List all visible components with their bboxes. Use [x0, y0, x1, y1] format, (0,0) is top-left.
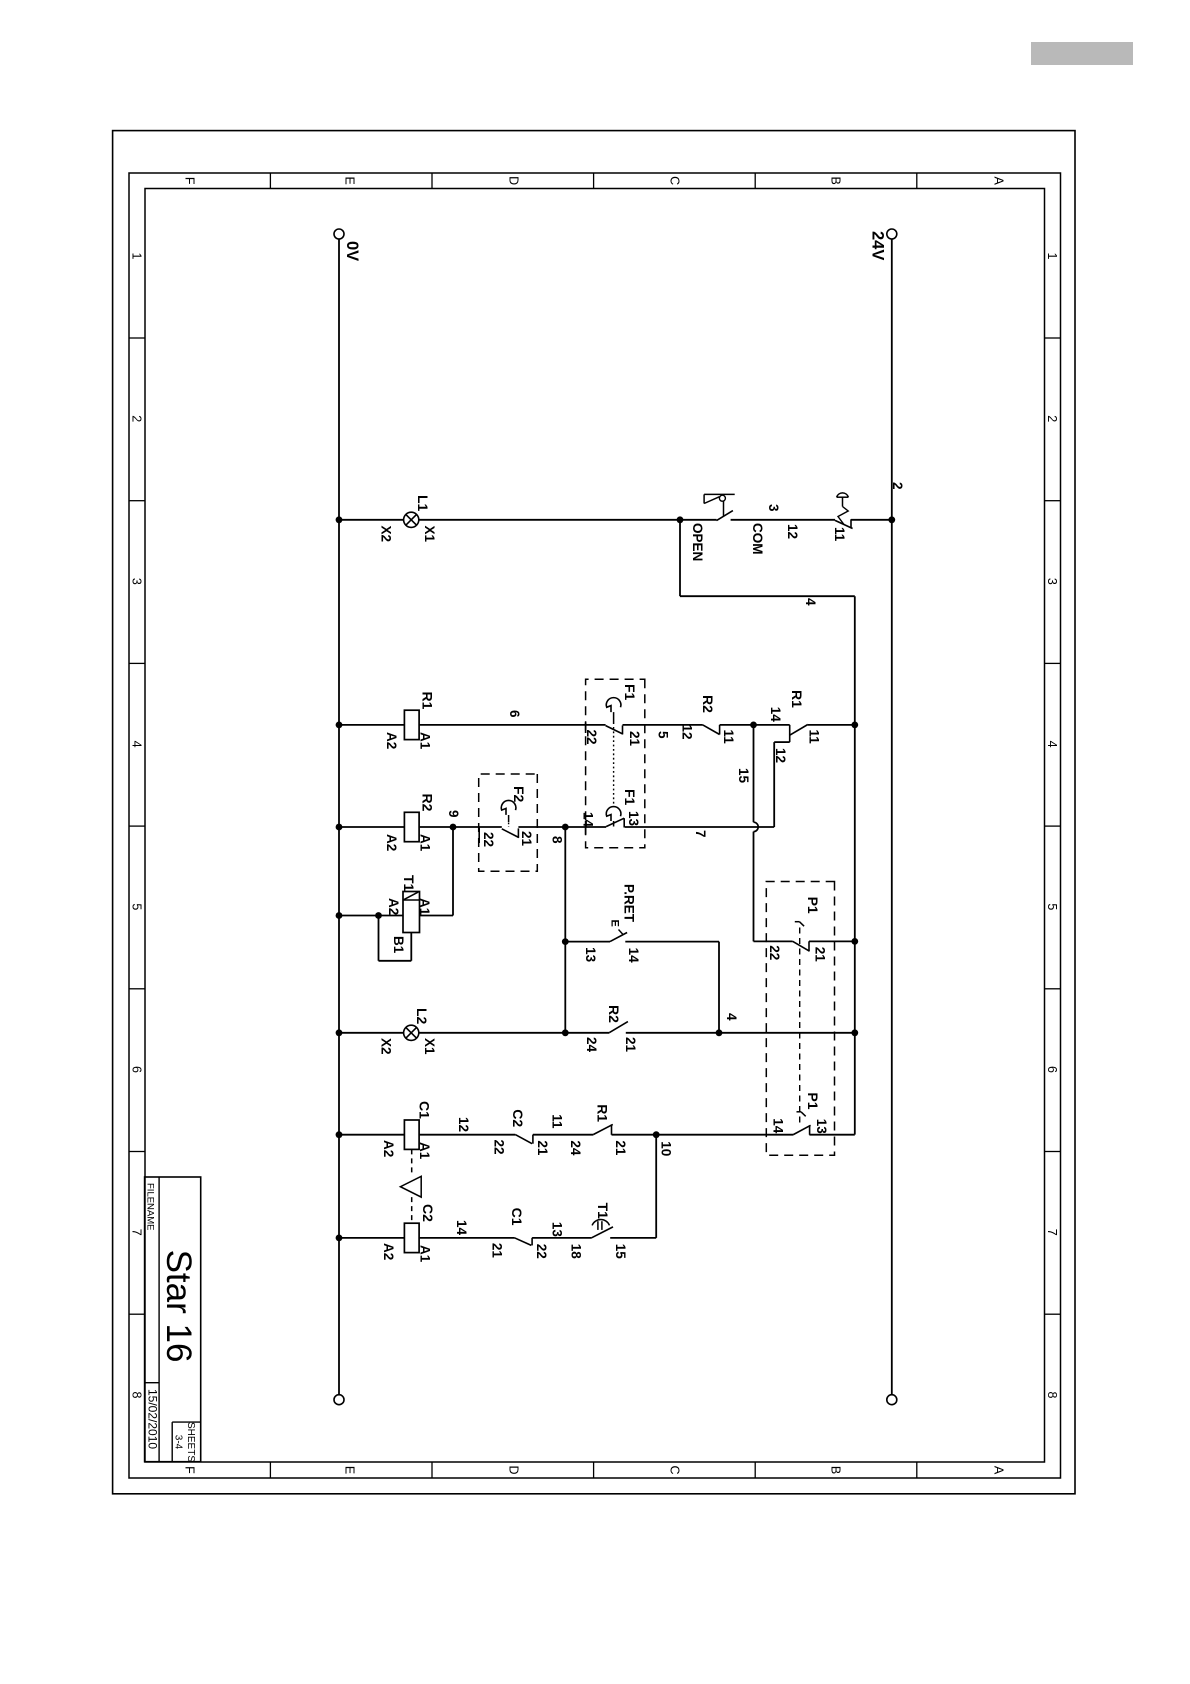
wire R1-14 to R2 contact: [720, 724, 754, 726]
junction on 24V rail: [888, 516, 895, 523]
relay coil R2: [404, 812, 419, 841]
junction node wire 8 (R2 rung): [562, 824, 569, 831]
svg-text:E: E: [343, 177, 357, 185]
wire junction to lamp L2: [419, 1032, 566, 1034]
svg-text:C2: C2: [510, 1109, 526, 1127]
svg-text:C: C: [668, 176, 682, 185]
wire R1-24 to C2-21: [533, 1134, 594, 1136]
svg-text:A2: A2: [386, 898, 401, 915]
timer contact T1 15/18: [592, 1227, 613, 1238]
wire R1-12 branch down to F1 bottom contact: [625, 826, 774, 828]
junction on 0V rail (R1): [336, 722, 343, 729]
wire R2-24 to junction 8: [565, 1032, 609, 1034]
wire bus end to P1-13: [809, 1134, 854, 1136]
svg-text:3: 3: [129, 578, 143, 585]
svg-text:C1: C1: [417, 1101, 433, 1119]
svg-text:T1: T1: [595, 1203, 611, 1220]
svg-text:13: 13: [626, 811, 641, 827]
mechanical interlock C1-C2: [411, 1149, 413, 1176]
svg-text:R1: R1: [789, 690, 805, 708]
svg-text:24: 24: [584, 1037, 599, 1053]
svg-text:R1: R1: [420, 692, 436, 710]
svg-text:L1: L1: [415, 495, 431, 512]
svg-text:6: 6: [1045, 1066, 1059, 1073]
svg-text:4: 4: [1045, 741, 1059, 748]
svg-text:22: 22: [767, 945, 782, 960]
flasher contact F1 21/22: [622, 725, 624, 734]
svg-text:7: 7: [693, 830, 708, 838]
wire coil R2 to 0V: [339, 826, 404, 828]
svg-text:22: 22: [491, 1140, 506, 1155]
svg-text:OPEN: OPEN: [690, 523, 705, 561]
svg-text:11: 11: [721, 730, 736, 745]
wire lamp L1 to 0V: [339, 519, 404, 521]
svg-text:B: B: [829, 177, 843, 185]
svg-text:P1: P1: [805, 1092, 821, 1109]
junction node B1 on rung: [375, 912, 382, 919]
svg-text:2: 2: [129, 415, 143, 422]
svg-text:5: 5: [656, 731, 671, 739]
actuator tick P1 bottom: [797, 1111, 802, 1113]
svg-text:14: 14: [626, 948, 641, 964]
wire 12-branch down: [774, 741, 790, 743]
svg-text:C2: C2: [420, 1204, 436, 1222]
wire 12-branch to R2 rung: [773, 742, 775, 827]
reference grid band inner rectangle: [145, 189, 1045, 1463]
junction node wire 10: [653, 1131, 660, 1138]
wire 2 (rail to pushbutton 11): [851, 519, 892, 521]
contactor coil C2: [404, 1223, 419, 1252]
lamp L1: [404, 512, 419, 527]
pressure switch contact P1 13/14 (bottom): [809, 1125, 811, 1135]
node 24V rail: [891, 239, 893, 1394]
svg-text:21: 21: [519, 831, 534, 847]
svg-text:14: 14: [581, 812, 596, 828]
title block frame: [145, 1177, 201, 1462]
grid row dividers: [270, 173, 916, 1478]
svg-text:18: 18: [569, 1244, 584, 1260]
pressure switch P1 dashed box: [766, 882, 834, 1156]
junction bus 4 / P1-21: [851, 938, 858, 945]
wire C2-22 to coil C1: [419, 1134, 515, 1136]
wire 4 (P.RET-14 to L2 rung): [718, 942, 720, 1033]
actuator tick P1 top: [795, 921, 800, 923]
door switch contact COM/OPEN: [717, 511, 733, 521]
svg-text:P1: P1: [805, 897, 821, 914]
svg-text:8: 8: [129, 1392, 143, 1399]
flasher F1 dashed box: [586, 679, 645, 847]
svg-text:4: 4: [129, 741, 143, 748]
flasher symbol F1 top: [606, 698, 621, 712]
wire coil C2 to 0V: [339, 1237, 404, 1239]
wire P1-22 to corner: [754, 940, 793, 942]
junction on 0V rail (R2): [336, 824, 343, 831]
svg-text:F2: F2: [511, 786, 527, 803]
return pushbutton contact P.RET 13/14: [610, 933, 627, 942]
wire branch from door switch junction: [679, 520, 681, 596]
outer page border: [113, 131, 1075, 1494]
svg-text:2: 2: [1045, 415, 1059, 422]
wire coil C1 to 0V: [339, 1134, 404, 1136]
svg-text:8: 8: [1045, 1392, 1059, 1399]
svg-text:A: A: [992, 177, 1006, 186]
svg-text:3: 3: [1045, 578, 1059, 585]
svg-text:X1: X1: [422, 526, 437, 543]
svg-text:4: 4: [803, 598, 818, 606]
wire 8 (R2 rung to L2 rung): [564, 827, 566, 1033]
svg-text:22: 22: [584, 730, 599, 745]
flasher contact F1 13/14: [623, 818, 625, 827]
svg-text:15: 15: [613, 1244, 628, 1260]
flasher symbol F1 bottom: [606, 807, 621, 821]
svg-text:X1: X1: [422, 1038, 437, 1055]
wire junction to R1-21: [612, 1134, 657, 1136]
svg-text:X2: X2: [379, 1038, 394, 1055]
svg-text:E: E: [609, 920, 621, 927]
junction on 0V rail (T1): [336, 912, 343, 919]
svg-text:1: 1: [129, 253, 143, 260]
svg-text:A1: A1: [418, 1245, 433, 1263]
svg-text:FILENAME: FILENAME: [145, 1183, 156, 1231]
wire C1-21 to coil C2: [419, 1237, 514, 1239]
wire door switch to lamp L1: [419, 519, 717, 521]
junction wire 8 / L2 rung: [562, 1029, 569, 1036]
svg-text:3-4: 3-4: [173, 1435, 184, 1450]
svg-text:A1: A1: [418, 732, 433, 750]
svg-text:2: 2: [890, 482, 905, 490]
junction on 0V rail (L2): [336, 1029, 343, 1036]
svg-text:3: 3: [766, 504, 781, 512]
svg-text:8: 8: [550, 836, 565, 844]
svg-text:R2: R2: [420, 794, 436, 812]
junction bus 4 / L2 rung: [851, 1029, 858, 1036]
svg-text:Star 16: Star 16: [159, 1250, 198, 1363]
svg-text:13: 13: [549, 1222, 564, 1238]
svg-text:6: 6: [129, 1066, 143, 1073]
svg-text:22: 22: [534, 1244, 549, 1259]
svg-text:7: 7: [129, 1229, 143, 1236]
grid row letters A-F: [183, 176, 1006, 1475]
grid column numbers 1-8: [129, 253, 1059, 1399]
pressure switch contact P1 21/22 (top): [808, 941, 810, 951]
pushbutton NC contact 11/12: [850, 519, 852, 528]
svg-text:24: 24: [568, 1140, 583, 1156]
svg-text:A2: A2: [384, 732, 399, 749]
wire 15 (R1-14 junction to P1-22): [753, 725, 755, 822]
svg-text:R2: R2: [700, 695, 716, 713]
svg-text:X2: X2: [379, 526, 394, 543]
mechanical link F1 contacts: [613, 727, 615, 806]
svg-text:F: F: [183, 177, 197, 185]
svg-text:21: 21: [813, 947, 828, 963]
svg-text:22: 22: [481, 832, 496, 847]
flasher symbol F2: [501, 800, 516, 814]
grey header box (unrotated): [1031, 42, 1133, 65]
svg-text:11: 11: [807, 730, 822, 745]
wire junction to F2 contact: [518, 826, 565, 828]
junction P.RET on wire 8: [562, 938, 569, 945]
wire T1 junction to coil R2: [419, 826, 453, 828]
svg-text:C: C: [668, 1465, 682, 1474]
door switch roller actuator icon: [704, 493, 735, 495]
svg-text:1: 1: [1045, 253, 1059, 260]
svg-text:A1: A1: [417, 1142, 432, 1160]
mechanical link P1 contacts: [799, 928, 801, 1128]
svg-text:5: 5: [1045, 903, 1059, 910]
relay contact R1 21/24 (C1 rung): [611, 1124, 613, 1134]
svg-text:13: 13: [814, 1119, 829, 1135]
svg-text:R2: R2: [606, 1005, 622, 1023]
svg-text:A2: A2: [381, 1243, 396, 1260]
wire bus to P1-21: [809, 940, 855, 942]
svg-text:F1: F1: [622, 684, 638, 701]
svg-text:24V: 24V: [869, 231, 887, 260]
wire P.RET-13 down to wire 8: [565, 941, 610, 943]
timer delay symbol: [592, 1220, 609, 1226]
svg-text:21: 21: [627, 731, 642, 747]
wire R2-12 to F1-21: [623, 724, 703, 726]
junction node T1 branch: [450, 824, 457, 831]
svg-text:6: 6: [507, 710, 522, 718]
junction node wire 15: [750, 722, 757, 729]
timer relay coil T1: [403, 892, 420, 933]
junction node wire 4 / L2 rung: [716, 1029, 723, 1036]
svg-text:12: 12: [785, 524, 800, 539]
reference grid band outer rectangle: [129, 173, 1061, 1478]
svg-text:E: E: [343, 1466, 357, 1474]
wire P.RET-14 up: [625, 941, 719, 943]
svg-text:0V: 0V: [343, 241, 361, 261]
svg-text:A1: A1: [417, 898, 432, 916]
wire 3 (pushbutton 12 to door switch COM): [731, 519, 835, 521]
mushroom-head actuator icon: [837, 493, 849, 497]
24V rail right terminal circle: [887, 1395, 897, 1405]
svg-text:15: 15: [736, 768, 751, 784]
svg-text:10: 10: [659, 1141, 674, 1156]
wire riser to bus 4: [680, 595, 855, 597]
svg-text:A2: A2: [381, 1140, 396, 1157]
relay contact R2 12/11 (NO): [719, 725, 721, 735]
svg-text:21: 21: [490, 1243, 505, 1259]
svg-text:21: 21: [623, 1037, 638, 1053]
wire 9 (R2 rung to T1 coil): [452, 827, 454, 916]
svg-text:SHEETS: SHEETS: [185, 1422, 196, 1462]
svg-text:13: 13: [583, 947, 598, 963]
wire bus to R1 contact 11: [808, 724, 855, 726]
svg-text:4: 4: [724, 1013, 739, 1021]
junction bus 4 / R1 rung: [851, 722, 858, 729]
svg-text:B1: B1: [391, 936, 406, 954]
svg-text:15/02/2010: 15/02/2010: [146, 1389, 160, 1449]
junction on 0V rail (C2): [336, 1235, 343, 1242]
0V rail right terminal circle: [334, 1395, 344, 1405]
wire T1-18 to C1-22: [532, 1237, 592, 1239]
svg-text:21: 21: [535, 1140, 550, 1156]
wire lamp L2 to 0V: [339, 1032, 404, 1034]
svg-text:A: A: [992, 1466, 1006, 1475]
24V rail left terminal circle: [887, 229, 897, 239]
svg-text:12: 12: [773, 748, 788, 763]
contactor contact C2 21/22 (NC): [532, 1135, 534, 1144]
svg-text:14: 14: [771, 1118, 786, 1134]
svg-text:5: 5: [129, 903, 143, 910]
svg-text:F1: F1: [622, 789, 638, 806]
wire P1-14 to junction 10: [656, 1134, 793, 1136]
svg-text:D: D: [507, 176, 521, 185]
svg-text:9: 9: [446, 810, 461, 818]
wire bus to wire4 junction: [719, 1032, 855, 1034]
svg-text:11: 11: [549, 1114, 564, 1129]
wire 10 (C1 rung to C2 rung): [655, 1135, 657, 1238]
svg-text:D: D: [507, 1465, 521, 1474]
svg-text:L2: L2: [414, 1008, 430, 1025]
relay coil R1: [404, 710, 419, 739]
svg-text:B: B: [829, 1466, 843, 1474]
wire F1-14 to junction 8: [565, 826, 606, 828]
svg-text:R1: R1: [595, 1104, 611, 1122]
node 0V rail: [338, 239, 340, 1394]
wire F1-22 to coil R1: [419, 724, 606, 726]
wire F2-22 to T1 branch junction: [453, 826, 502, 828]
0V rail left terminal circle: [334, 229, 344, 239]
wire to R2-21 contact: [626, 1032, 719, 1034]
junction on 0V rail (C1): [336, 1131, 343, 1138]
grid column dividers: [129, 338, 1061, 1314]
svg-text:21: 21: [613, 1140, 628, 1156]
flasher F2 dashed box: [479, 774, 538, 871]
svg-text:12: 12: [680, 725, 695, 740]
wire B1 loop: [410, 933, 412, 961]
wire T1 coil to 0V: [339, 915, 403, 917]
relay contact R1 11/14/12 (changeover): [789, 725, 808, 736]
svg-text:P.RET: P.RET: [622, 884, 637, 923]
junction on 0V rail (L1): [336, 516, 343, 523]
svg-text:14: 14: [454, 1220, 469, 1236]
svg-text:A1: A1: [418, 834, 433, 852]
svg-text:12: 12: [456, 1117, 471, 1132]
wire coil R1 to 0V: [339, 724, 404, 726]
bus wire 4: [854, 596, 856, 1134]
svg-text:11: 11: [832, 527, 847, 542]
svg-text:F: F: [183, 1466, 197, 1474]
svg-text:COM: COM: [750, 523, 765, 555]
wire 15 continued: [753, 832, 755, 942]
lamp L2: [404, 1025, 419, 1040]
wire 15 hop over R2 rung: [754, 822, 759, 831]
wire to T1 coil: [420, 915, 454, 917]
svg-text:14: 14: [768, 707, 783, 723]
contactor coil C1: [404, 1120, 419, 1149]
svg-text:A2: A2: [384, 834, 399, 851]
svg-text:7: 7: [1045, 1229, 1059, 1236]
wire 14 to junction: [754, 724, 790, 726]
contactor contact C1 21/22 (NC): [531, 1238, 533, 1246]
junction node (branch to bus 4): [677, 516, 684, 523]
wire link down to T1 contact: [610, 1237, 656, 1239]
relay contact R2 21/24 (L2 rung): [609, 1022, 628, 1033]
svg-text:C1: C1: [509, 1208, 525, 1226]
svg-text:T1: T1: [401, 875, 417, 892]
flasher contact F2 21/22: [517, 828, 519, 838]
